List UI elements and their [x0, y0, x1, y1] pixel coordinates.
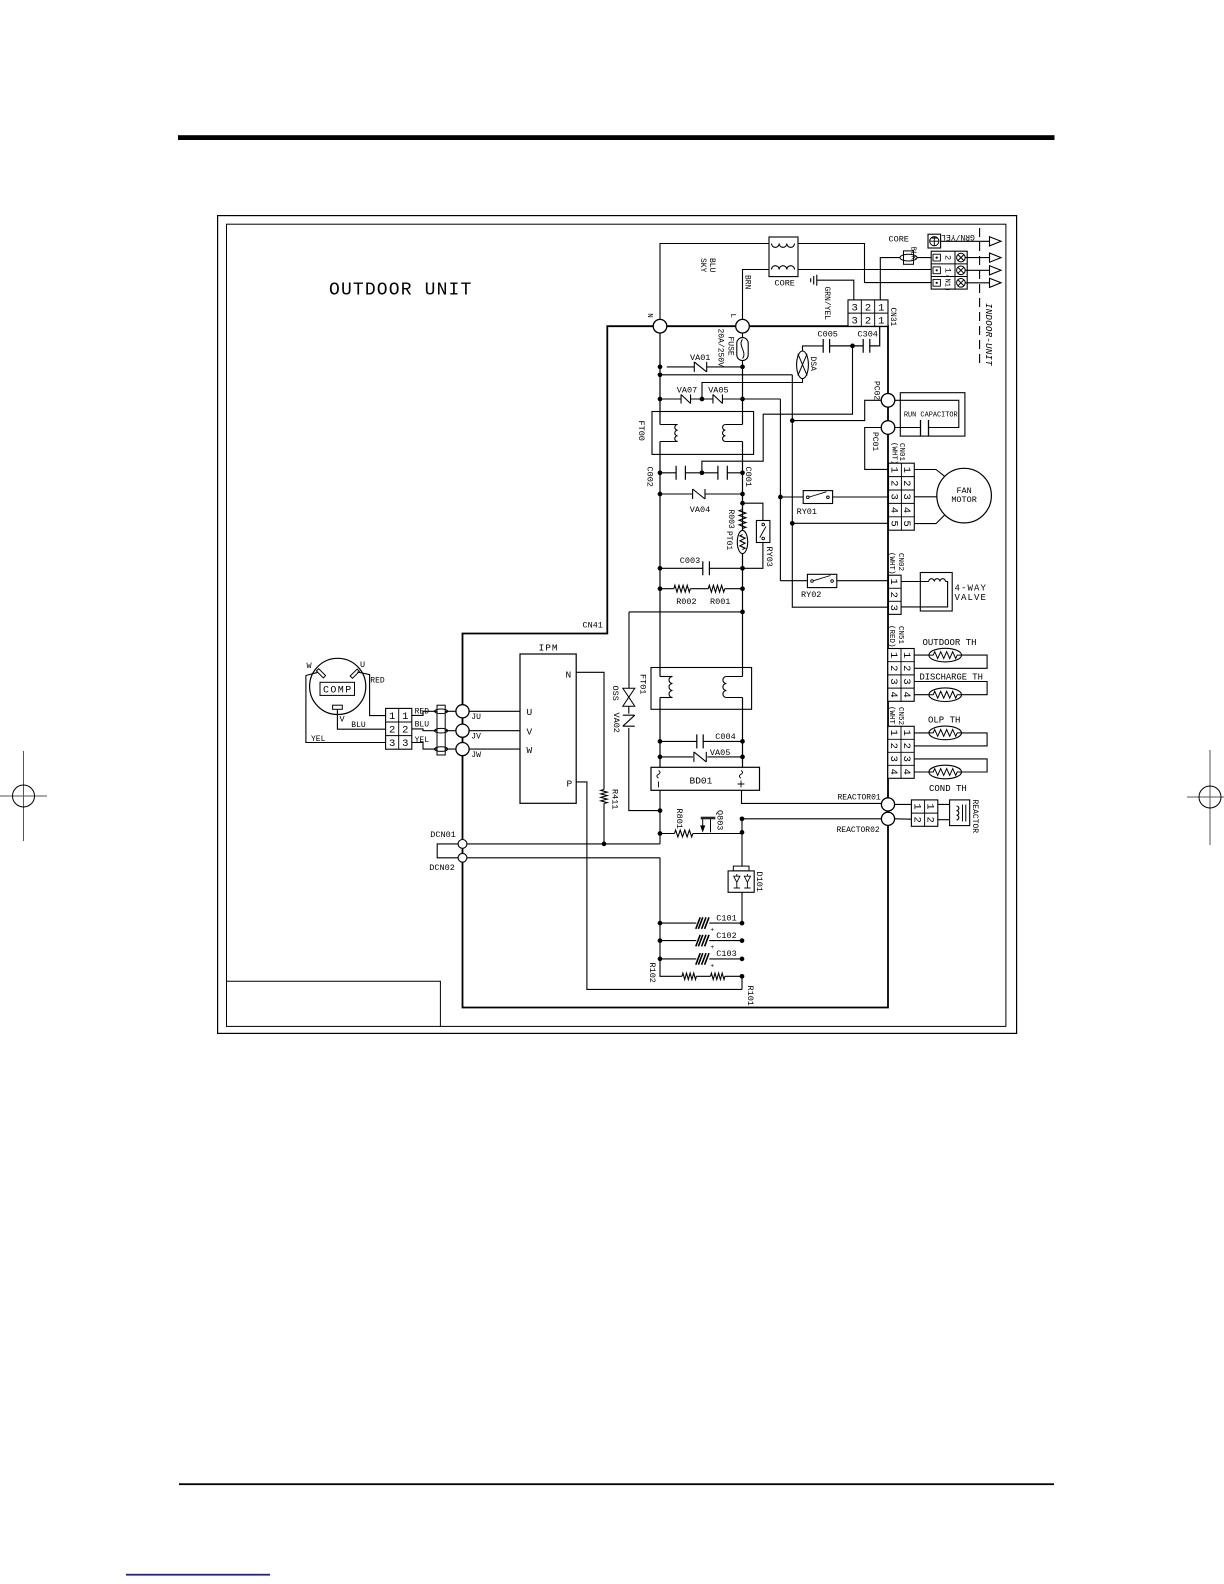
junction RY01 left	[778, 495, 783, 500]
junction VA row right	[740, 397, 745, 402]
wire L to fuse	[742, 333, 744, 367]
diode pack D101	[733, 866, 749, 871]
svg-text:W: W	[527, 745, 533, 756]
svg-text:2: 2	[389, 725, 395, 737]
svg-text:4: 4	[887, 769, 899, 775]
svg-text:R003: R003	[726, 510, 735, 529]
svg-text:CN31: CN31	[888, 308, 896, 327]
svg-text:OUTDOOR UNIT: OUTDOOR UNIT	[329, 281, 472, 301]
wire BD01+ to REACTOR01	[742, 790, 882, 803]
relay RY01	[803, 491, 832, 504]
wire DCN02 row	[467, 857, 660, 859]
wire VA01 row	[667, 366, 743, 368]
svg-text:YEL: YEL	[311, 735, 326, 744]
svg-text:+: +	[710, 927, 714, 934]
svg-text:BD01: BD01	[690, 775, 713, 786]
svg-text:R001: R001	[710, 597, 730, 607]
arrow to indoor 1	[990, 237, 1002, 246]
svg-text:C103: C103	[716, 949, 736, 959]
svg-text:4: 4	[887, 692, 899, 698]
junction C103 right	[740, 957, 745, 962]
junction VA04 right	[740, 492, 745, 497]
svg-text:W: W	[307, 661, 313, 671]
svg-text:1: 1	[924, 803, 936, 809]
svg-text:C001: C001	[743, 467, 753, 487]
svg-text:YEL: YEL	[415, 736, 430, 745]
junction C002 left	[658, 470, 663, 475]
svg-text:JU: JU	[471, 713, 481, 722]
svg-text:1: 1	[878, 302, 884, 314]
varistor VA05a	[713, 395, 723, 404]
svg-text:REACTOR01: REACTOR01	[838, 793, 881, 802]
wire plug2 to JV	[412, 729, 456, 731]
resistor R002	[674, 585, 690, 592]
capacitor C102	[696, 935, 709, 947]
wire VA05 row	[660, 756, 743, 758]
svg-text:Q803: Q803	[714, 810, 724, 830]
svg-text:OLP TH: OLP TH	[928, 716, 960, 726]
svg-text:REACTOR02: REACTOR02	[837, 826, 880, 835]
wire R801 row	[660, 833, 742, 835]
wire bus to R102	[660, 858, 742, 977]
legend box	[227, 981, 441, 1026]
wire C005 branch to PC02	[702, 346, 853, 473]
svg-text:(RED): (RED)	[887, 625, 895, 648]
svg-text:IPM: IPM	[539, 643, 559, 654]
svg-text:5: 5	[900, 520, 912, 526]
wire R101 to P rail	[741, 976, 743, 989]
connector reactor plug	[911, 800, 937, 826]
junction C003 right	[740, 566, 745, 571]
node N	[653, 319, 667, 333]
capacitor C002	[676, 466, 685, 480]
earth symbol (indoor GRN/YEL)	[928, 234, 941, 248]
connector CN01	[889, 463, 915, 530]
svg-text:CN01: CN01	[897, 443, 905, 462]
wire RY03 branch	[743, 503, 763, 568]
resistor R001	[708, 585, 724, 592]
svg-text:C005: C005	[818, 330, 838, 340]
wires terminals to arrows	[965, 258, 989, 283]
terminal screws	[957, 253, 966, 262]
svg-text:2: 2	[900, 743, 912, 749]
wire OSS chain	[629, 612, 660, 811]
node JU	[456, 705, 469, 718]
svg-text:+: +	[710, 962, 714, 969]
svg-text:JW: JW	[471, 751, 481, 760]
junction C004 left	[658, 739, 663, 744]
wire VA04 row	[660, 493, 743, 495]
thermistor PT01	[742, 529, 744, 532]
node L	[736, 319, 750, 333]
svg-text:VA04: VA04	[690, 505, 710, 515]
svg-text:PT01: PT01	[724, 531, 733, 550]
junction VA row mid	[700, 397, 705, 402]
compressor COMP body	[310, 658, 366, 714]
compressor terminal V	[333, 705, 343, 709]
wire REACTOR02 to Q803/D101	[742, 819, 881, 866]
svg-text:1: 1	[887, 652, 899, 658]
svg-text:4: 4	[900, 692, 912, 698]
terminal block (indoor connection)	[931, 251, 967, 289]
wire to PC02	[792, 400, 881, 420]
wire RY01 row	[780, 496, 888, 498]
junction aux row left	[658, 372, 663, 377]
page header rule	[178, 135, 1055, 140]
wire CN01 pin1 to fan	[914, 470, 945, 477]
svg-text:BLU: BLU	[707, 258, 716, 273]
arrow to indoor 2	[990, 253, 1002, 262]
svg-text:N: N	[566, 670, 572, 681]
relay RY02	[807, 574, 836, 587]
node REACTOR02	[881, 812, 894, 825]
page footer rule	[179, 1483, 1054, 1485]
wire IPM P rail	[576, 782, 742, 990]
svg-text:DCN01: DCN01	[430, 830, 456, 840]
ferrite bead JW	[435, 747, 448, 752]
junction VA row left	[658, 397, 663, 402]
thermistor OLP TH	[929, 726, 962, 740]
svg-text:RY01: RY01	[797, 507, 817, 517]
svg-text:RY03: RY03	[764, 547, 774, 567]
svg-text:OUTDOOR TH: OUTDOOR TH	[923, 638, 977, 648]
svg-text:L: L	[728, 314, 736, 319]
wire C002/C001 row	[660, 472, 743, 474]
svg-text:C003: C003	[680, 556, 700, 566]
svg-text:(WHT): (WHT)	[887, 706, 895, 729]
svg-text:2: 2	[887, 665, 899, 671]
varistor VA02	[623, 715, 635, 726]
svg-text:VA05: VA05	[710, 748, 730, 758]
svg-text:VA01: VA01	[690, 353, 710, 363]
fuse FUSE 20A/250V	[737, 338, 748, 361]
junction VA04 left	[658, 492, 663, 497]
svg-text:3: 3	[900, 756, 912, 762]
svg-text:2: 2	[900, 665, 912, 671]
footer blue mark	[126, 1574, 270, 1576]
reactor REACTOR	[950, 800, 970, 826]
node JW	[456, 743, 469, 756]
wire DCN01 row	[467, 843, 660, 845]
BD01 terminal marks	[657, 771, 660, 779]
svg-text:GRN/YEL: GRN/YEL	[941, 232, 975, 241]
4-way valve box	[920, 573, 952, 612]
resistor R801	[675, 830, 693, 837]
svg-text:CORE: CORE	[889, 235, 909, 245]
wire olp th	[914, 733, 987, 746]
wire C102 row	[660, 940, 742, 942]
svg-text:R801: R801	[674, 809, 684, 829]
junction VA05 right	[740, 755, 745, 760]
svg-text:SKY: SKY	[698, 258, 707, 273]
svg-text:1: 1	[878, 316, 884, 328]
svg-text:(WHT): (WHT)	[887, 552, 895, 575]
wire JW to IPM	[469, 748, 520, 750]
svg-text:1: 1	[900, 467, 912, 473]
wire C003 row	[660, 567, 743, 569]
junction x792 upper	[790, 418, 795, 423]
core BLK bead	[900, 254, 917, 261]
svg-text:(WHT): (WHT)	[890, 442, 898, 465]
node DCN02	[458, 853, 467, 862]
junction C101 right	[740, 921, 745, 926]
junction R001 right	[740, 586, 745, 591]
svg-text:U: U	[527, 707, 533, 718]
svg-text:2: 2	[910, 817, 922, 823]
svg-text:1: 1	[887, 730, 899, 736]
svg-text:RED: RED	[370, 676, 385, 685]
node PC01	[881, 421, 895, 435]
wire earth to arrow	[941, 240, 990, 242]
svg-text:5: 5	[887, 520, 899, 526]
svg-text:+: +	[710, 944, 714, 951]
svg-text:1: 1	[900, 652, 912, 658]
wire JV to IPM	[469, 730, 520, 732]
arrow to indoor 4	[990, 278, 1002, 287]
svg-text:1: 1	[887, 579, 899, 585]
wire RY02 row	[780, 580, 888, 582]
svg-text:1: 1	[900, 730, 912, 736]
svg-text:3: 3	[852, 302, 858, 314]
svg-text:C002: C002	[645, 467, 655, 487]
wire cond th	[914, 759, 987, 772]
label COMP	[320, 682, 355, 695]
junction C003 left	[658, 566, 663, 571]
junction R101 right	[740, 974, 745, 979]
svg-text:VA07: VA07	[677, 386, 697, 396]
svg-text:CN52: CN52	[896, 707, 904, 725]
wire right branch x780	[779, 399, 781, 581]
svg-text:20A/250V: 20A/250V	[715, 329, 724, 368]
junction OSS row right	[740, 610, 745, 615]
left registration mark	[0, 751, 47, 841]
svg-text:3: 3	[852, 316, 858, 328]
svg-text:CN51: CN51	[896, 626, 904, 645]
node JV	[456, 724, 469, 737]
svg-text:3: 3	[900, 678, 912, 684]
module IPM box	[520, 654, 576, 803]
wire aux row y375	[660, 374, 792, 376]
svg-text:2: 2	[887, 592, 899, 598]
wire plug3 to JW	[412, 743, 456, 750]
bridge rectifier BD01	[651, 767, 760, 790]
capacitor C004	[697, 734, 703, 748]
junction C103 left	[658, 957, 663, 962]
junction R801 left	[658, 831, 663, 836]
ferrite bead JV	[435, 728, 448, 733]
junction C005/C304	[850, 344, 855, 349]
svg-text:VALVE: VALVE	[955, 593, 988, 603]
ferrite bead JU	[435, 709, 448, 714]
svg-text:3: 3	[887, 678, 899, 684]
run capacitor box	[900, 393, 965, 436]
svg-text:2: 2	[943, 255, 953, 260]
4-way valve coil	[929, 579, 946, 582]
svg-text:N: N	[645, 313, 653, 318]
relay RY03	[756, 521, 770, 543]
wire R002/R001 row	[660, 588, 743, 590]
wire bus left lower	[659, 790, 661, 844]
FT00 left coil	[660, 424, 678, 426]
FT01 right coil	[726, 676, 742, 678]
wire CN01 pin5 row	[792, 522, 888, 524]
svg-text:D101: D101	[754, 872, 764, 892]
svg-text:3: 3	[887, 605, 899, 611]
svg-text:P: P	[567, 779, 573, 790]
wire PC01 to CN01 pin1	[865, 428, 889, 470]
bus L side (x=742.5)	[742, 367, 744, 767]
fan motor	[937, 468, 992, 523]
wire OSS row	[629, 611, 743, 613]
junction reactor02 branch	[740, 816, 745, 821]
svg-text:COND TH: COND TH	[929, 784, 967, 794]
svg-text:U: U	[360, 660, 365, 670]
capacitor C003	[703, 561, 710, 575]
thermistor OUTDOOR TH	[929, 648, 962, 662]
svg-text:2: 2	[887, 480, 899, 486]
svg-text:COMP: COMP	[323, 686, 353, 697]
surge absorber DSA	[797, 351, 809, 379]
svg-text:VA02: VA02	[611, 713, 621, 733]
transistor Q803	[701, 817, 716, 820]
svg-text:R101: R101	[745, 986, 755, 1006]
core CORE (line filter)	[769, 237, 798, 277]
svg-text:BLK: BLK	[909, 247, 917, 261]
junction CN01 pin5 branch	[790, 521, 795, 526]
compressor terminal W	[316, 669, 325, 678]
svg-text:3: 3	[887, 494, 899, 500]
svg-text:4: 4	[900, 769, 912, 775]
svg-text:RY02: RY02	[801, 590, 821, 600]
svg-text:R411: R411	[609, 789, 619, 809]
FT01 left coil	[660, 676, 673, 678]
resistor R411	[601, 790, 607, 804]
svg-text:BRN: BRN	[743, 275, 752, 290]
thermistor DISCHARGE TH	[929, 688, 962, 702]
compressor terminal U	[350, 669, 359, 678]
wire CN01 pin3 to fan	[914, 496, 937, 498]
wire CN02 pin1 to valve coil	[901, 581, 929, 583]
junction R411 bottom	[602, 842, 607, 847]
svg-text:GRN/YEL: GRN/YEL	[822, 287, 831, 321]
resistor R102	[682, 973, 696, 979]
wire CN31 pin1 to BLK core	[880, 258, 931, 300]
svg-text:INDOOR-UNIT: INDOOR-UNIT	[983, 303, 994, 366]
indoor unit boundary (dashed)	[979, 228, 981, 364]
connector CN02	[889, 575, 902, 614]
junction C102 right	[740, 938, 745, 943]
svg-text:1: 1	[389, 711, 395, 723]
capacitor C304	[853, 326, 880, 353]
svg-text:2: 2	[865, 316, 871, 328]
run capacitor symbol	[921, 420, 929, 436]
resistor R003	[739, 510, 746, 529]
varistor VA05	[694, 752, 706, 762]
connector compressor plug	[386, 708, 412, 749]
wire V BLU	[337, 709, 385, 729]
svg-text:4: 4	[900, 507, 912, 513]
svg-text:3: 3	[887, 756, 899, 762]
capacitor C101	[696, 917, 709, 929]
wire PC01 into run capacitor	[895, 427, 921, 429]
wire discharge th	[914, 682, 987, 695]
node PC02	[881, 394, 895, 408]
svg-text:BLU: BLU	[351, 721, 366, 730]
junction OSS chain bottom	[658, 808, 663, 813]
varistor VA04	[693, 489, 705, 499]
connector CN52	[888, 726, 914, 778]
svg-text:2: 2	[402, 725, 408, 737]
wire JU to IPM	[469, 710, 520, 712]
wire x792 branch	[792, 375, 888, 607]
connector CN51	[888, 649, 914, 702]
svg-text:2: 2	[924, 817, 936, 823]
junction R003 top	[740, 501, 745, 506]
svg-text:3: 3	[402, 738, 408, 750]
node REACTOR01	[881, 798, 894, 811]
wire PC02 into run capacitor	[895, 400, 959, 427]
capacitor C005	[823, 339, 852, 353]
svg-text:R102: R102	[647, 963, 657, 983]
svg-text:1: 1	[887, 467, 899, 473]
wire R411 to DCN01	[603, 804, 605, 844]
wire plug to reactor	[938, 804, 950, 819]
svg-text:2: 2	[900, 480, 912, 486]
junction VA01 left	[658, 365, 663, 370]
wire plug1 to JU	[412, 711, 456, 715]
bus N side (x=660)	[659, 333, 661, 767]
junction C004 right	[740, 739, 745, 744]
wire W YEL	[306, 672, 386, 742]
svg-text:OSS: OSS	[610, 686, 620, 701]
wire VA07/VA05 row	[660, 398, 780, 400]
diode OSS (bidirectional)	[623, 688, 635, 706]
svg-text:V: V	[340, 715, 346, 725]
svg-text:V: V	[527, 726, 533, 737]
wire DSA bottom	[702, 379, 803, 399]
junction C101 left	[658, 921, 663, 926]
svg-text:C004: C004	[715, 732, 735, 742]
svg-text:2: 2	[865, 302, 871, 314]
svg-text:3: 3	[389, 738, 395, 750]
svg-text:4: 4	[887, 507, 899, 513]
varistor VA01	[694, 362, 706, 372]
junction VA01 right	[740, 365, 745, 370]
right registration mark	[1187, 750, 1224, 845]
svg-text:FT00: FT00	[636, 421, 646, 441]
jumper DCN01-DCN02	[437, 844, 458, 858]
line filter FT00 box	[652, 412, 754, 455]
svg-text:C304: C304	[858, 330, 878, 340]
junction C102 left	[658, 938, 663, 943]
PCB board outline	[463, 326, 889, 1007]
svg-text:CORE: CORE	[775, 278, 795, 288]
diagram outer frame	[218, 216, 1017, 1034]
svg-text:FUSE: FUSE	[725, 337, 734, 356]
junction Q803 top	[740, 830, 745, 835]
capacitor C103	[696, 953, 709, 965]
svg-text:(N1): (N1)	[942, 274, 950, 291]
svg-text:JV: JV	[471, 732, 481, 741]
wire N to CORE upper winding	[660, 244, 931, 320]
junction VA05 left	[658, 755, 663, 760]
svg-text:2: 2	[887, 743, 899, 749]
arrow to indoor 3	[990, 266, 1002, 275]
wire DSA top to C005	[803, 346, 824, 351]
wire C103 row	[660, 958, 742, 960]
connector CN31	[848, 300, 888, 326]
svg-text:VA05: VA05	[708, 386, 728, 396]
